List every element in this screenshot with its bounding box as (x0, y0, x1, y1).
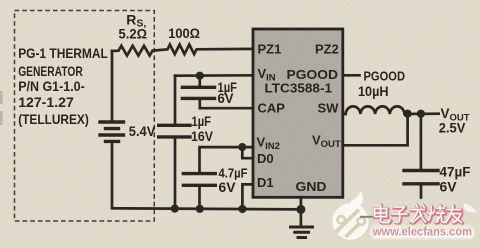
svg-text:www.elecfans.com: www.elecfans.com (372, 225, 472, 239)
